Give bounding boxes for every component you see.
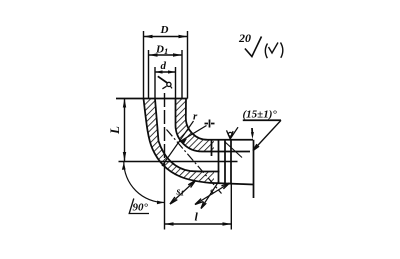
svg-text:s1: s1 [176,187,185,198]
s dimension [195,183,230,205]
horizontal axis line [119,161,238,163]
roughness note 20 sqrt [245,37,262,57]
D1 dimension [148,50,150,99]
90 deg arc [124,162,165,203]
svg-text:L: L [107,126,122,135]
right outer line + corner arc + socket top line [186,99,253,140]
(15±1) leader [243,119,281,121]
D dimension [143,31,145,99]
svg-text:s: s [209,187,214,198]
right socket face vertical [253,140,255,198]
top face line [116,98,188,100]
d dimension [154,67,156,99]
svg-text:D: D [160,24,169,36]
s1 dimension [170,181,196,205]
roughness mark in top bore [158,76,167,83]
right bore line + inner corner arc + bore top line [176,99,251,152]
svg-text:(15±1)°: (15±1)° [243,109,278,121]
svg-text:d: d [161,60,167,72]
hatched section walls [144,99,215,184]
svg-text:D1: D1 [155,44,168,56]
svg-text:20: 20 [238,31,251,45]
90 shelf [129,199,149,214]
l dimension [165,223,232,225]
left bore line + inner bore arc + bottom bore line [155,99,220,172]
vertical axis line [164,93,166,161]
vertical extension below [164,161,166,230]
socket ring lines [211,140,213,156]
L dimension [124,99,126,162]
45 deg dash-dot bisector [167,130,222,194]
svg-text:90°: 90° [133,202,149,214]
left outer profile + outer bend arc + bottom outer line [144,99,254,185]
r label + center mark [205,123,209,125]
roughness mark on right socket [228,132,232,136]
svg-text:r: r [193,111,198,123]
svg-text:l: l [195,210,199,224]
